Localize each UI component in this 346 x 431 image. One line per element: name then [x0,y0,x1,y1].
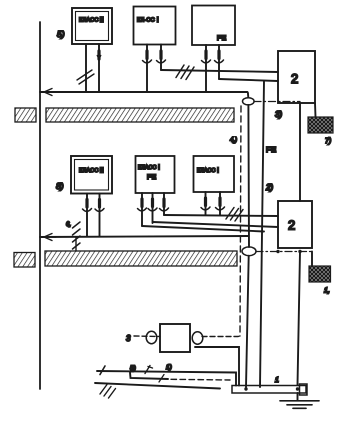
wire: pin E1 with plug-socket [138,193,147,226]
svg-text:6,: 6, [66,222,71,228]
bushing ellipse upper [243,98,255,105]
svg-text:FE: FE [147,174,157,181]
wire: pin A2 with plug arrow [97,44,101,92]
wire: link bus between box 2 upper and box 2 lower [299,103,301,201]
distribution box 2 (lower) [278,201,312,248]
wire: tap line L1b with dashed continuation [130,373,230,383]
svg-text:2: 2 [291,71,298,86]
wire: pin B2 with plug-socket [157,45,166,71]
wire: pin F2 with plug-socket [216,192,225,215]
wire: FE riser [260,81,264,387]
floor slab (hatched), upper left piece [15,108,36,122]
junction dot on bar right [296,387,299,390]
svg-text:КЛАССII: КЛАССII [79,167,104,174]
appliance box B (class I) [134,7,176,45]
breaker stub with slashes on W3 [73,222,81,251]
svg-text:8): 8) [56,181,64,191]
wire: top collector to riser with left arrow [40,89,247,96]
wire: stub to wall block lower right [311,252,313,267]
bushing ellipse right of box 3 [192,332,203,344]
wire: left riser (PEN main) [39,22,41,389]
bushing ellipse lower [242,247,256,256]
junction dot [276,250,279,253]
appliance box F (class I) [194,156,235,192]
wire: pin D2 with plug-socket [95,194,104,237]
transformer box 3 [160,324,190,352]
main earthing bar [232,384,307,395]
svg-text:4,): 4,) [230,138,237,144]
appliance box A (class II, double border) [72,8,112,44]
junction dot [298,250,301,253]
slashes /// on line W1 [226,208,243,222]
wall block (crosshatched) upper right [308,117,333,133]
svg-text:КЛАСС I: КЛАСС I [138,164,160,171]
wire: pin A1 [85,44,87,92]
floor slab (hatched), lower left piece [14,253,35,268]
svg-text:1): 1) [166,364,172,371]
slashes /// on line T1 [176,65,194,80]
wire: box 3 earth lead to earthing bar [195,347,239,386]
wire: pin C1 with plug-socket [202,45,211,92]
svg-text:3): 3) [275,110,282,119]
wire: line W1 to box 2 lower [164,215,278,216]
wire: PEN bus middle [247,105,250,247]
wire: pin E2 with plug-socket [148,193,157,223]
wire: bus from box 2 lower to earthing bar and ground [298,252,301,386]
wire: dash-dot link under box 2 upper [254,101,300,103]
wire: supply line L2 with phase slashes [95,383,220,398]
wire: line W2b from pin E1 to FE riser [142,226,264,232]
wire: dash-dot under box 2 lower [256,251,313,253]
svg-text:1: 1 [275,377,279,384]
wire: PEN bus down through ceiling bushings [247,92,248,98]
breaker slashes on pin A1 [77,70,94,84]
wire: pin F1 with plug-socket [201,192,210,215]
wall block (crosshatched) lower right [309,266,331,282]
svg-text:FE: FE [266,145,277,154]
floor slab (hatched), lower long piece [45,251,237,266]
svg-text:3: 3 [126,334,131,343]
svg-text:1,: 1, [324,288,330,295]
svg-text:КЛАСС I: КЛАСС I [197,167,219,174]
wire: stub from box 2 upper to wall block [314,103,317,117]
svg-text:5): 5) [57,29,65,39]
svg-text:2): 2) [265,183,273,192]
wire: pin C2 with plug-socket [215,45,224,79]
wire: dashed lead left of box 3 [134,335,160,338]
wire: pin B1 with plug-socket [143,45,152,93]
svg-text:7): 7) [325,138,331,145]
svg-text:5): 5) [130,365,136,372]
wire: line T1 from pin B2 to box 2 upper [161,70,278,72]
appliance box D (class II, double border) [71,156,112,194]
wire: pin D1 with plug-socket [83,194,92,237]
wire: line W2 to box 2 lower [153,222,278,227]
appliance box C (with FE terminal) [192,6,235,46]
wire: PEN bus lower to main earthing bar [246,256,249,387]
appliance box E (class I with FE) [136,156,175,193]
wire: supply line L1 with ticks [97,366,236,386]
wire: pin E3 with plug-socket [160,193,169,215]
wire: line W3 collector to riser with left arrow [40,234,248,241]
ground symbol [280,393,319,408]
junction dot on bar [244,387,247,390]
floor slab (hatched), upper long piece [46,108,234,122]
bushing ellipse left of box 3 [146,331,157,343]
wire: dashed lead right of box 3 to dashed riser [202,335,240,338]
wire: dashed riser [240,106,241,336]
svg-text:2: 2 [288,218,295,233]
svg-text:FE: FE [217,35,227,42]
svg-text:КЛАССII: КЛАССII [79,17,104,24]
wire: line T2 from pin C2 to box 2 upper [219,79,278,81]
distribution box 2 (upper) [278,51,315,103]
